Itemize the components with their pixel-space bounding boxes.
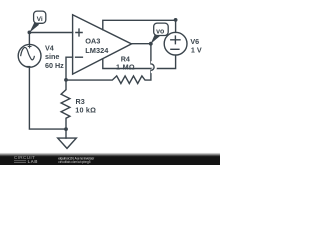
svg-text:1 V: 1 V <box>191 46 202 55</box>
svg-text:LM324: LM324 <box>85 46 109 55</box>
svg-text:LAB: LAB <box>28 159 38 164</box>
svg-text:vo: vo <box>156 29 164 36</box>
svg-text:60 Hz: 60 Hz <box>45 61 64 70</box>
svg-text:circuitlab.com/c/cpbng5: circuitlab.com/c/cpbng5 <box>58 160 90 164</box>
svg-text:10 kΩ: 10 kΩ <box>75 106 96 115</box>
svg-text:sine: sine <box>45 52 59 61</box>
svg-text:Vi: Vi <box>37 16 43 23</box>
svg-text:R3: R3 <box>76 97 85 106</box>
svg-text:OA3: OA3 <box>85 37 100 46</box>
svg-text:1 MΩ: 1 MΩ <box>116 63 135 72</box>
